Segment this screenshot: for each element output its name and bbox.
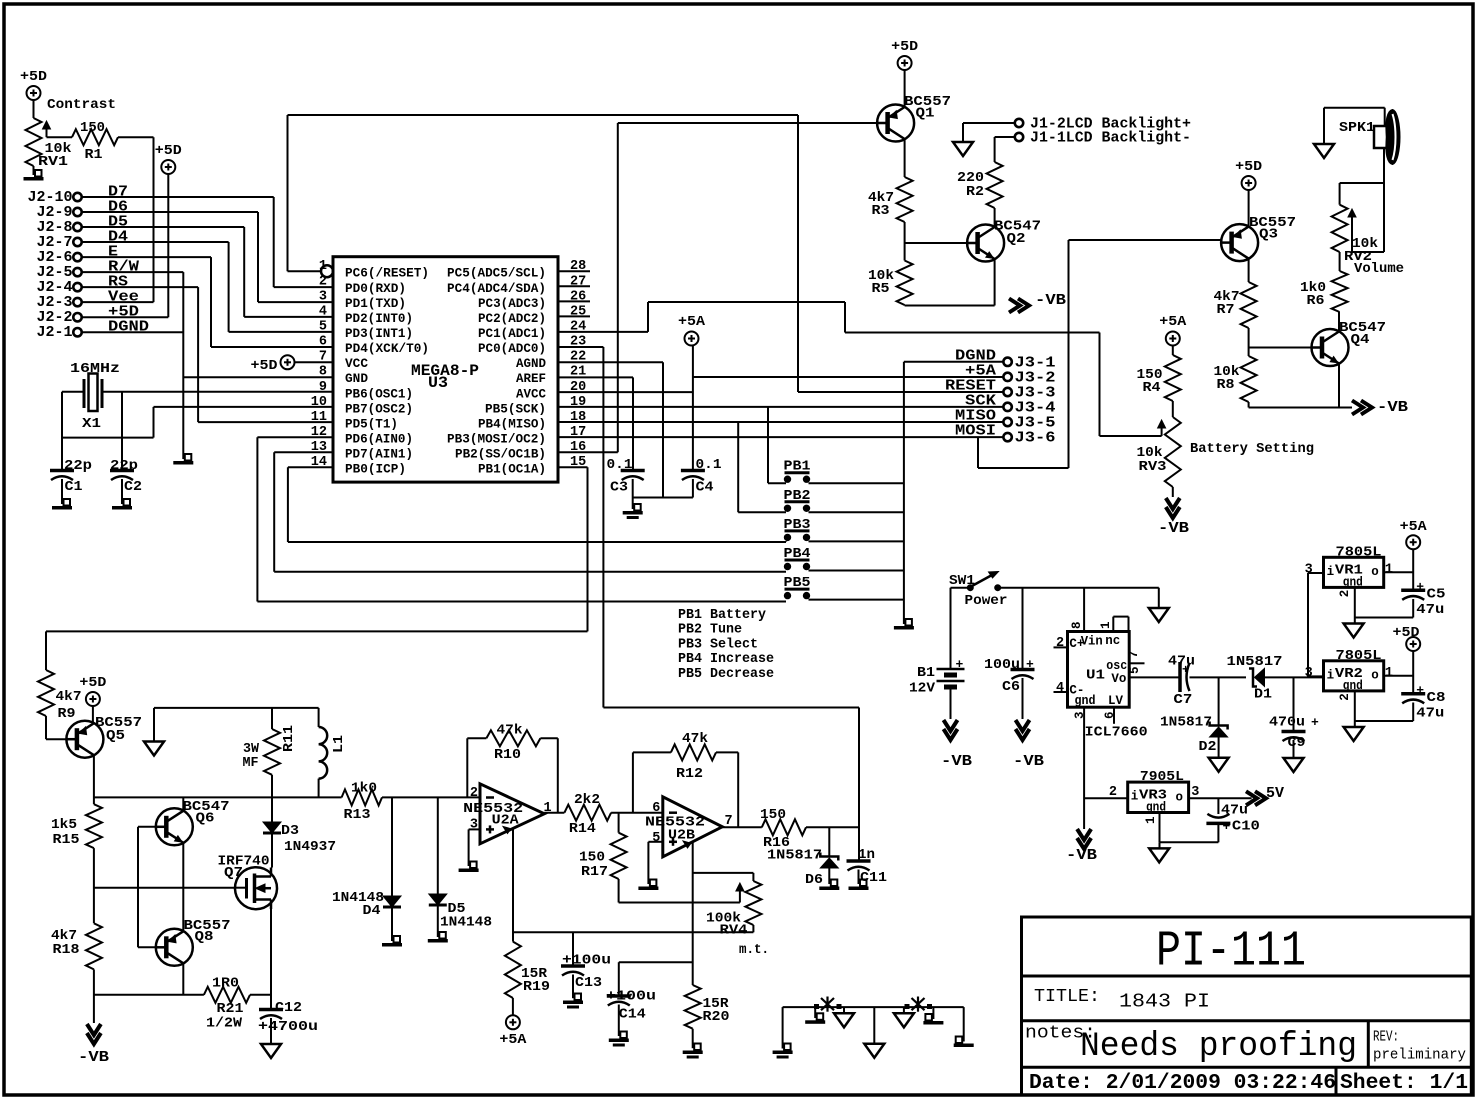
wire xyxy=(61,479,63,504)
svg-text:gnd: gnd xyxy=(1343,679,1363,693)
wire xyxy=(94,994,204,996)
svg-text:1N5817: 1N5817 xyxy=(1160,715,1212,731)
svg-text:-VB: -VB xyxy=(941,753,972,770)
svg-text:4: 4 xyxy=(319,304,327,319)
svg-text:+5D: +5D xyxy=(79,675,106,691)
node J2-9 xyxy=(37,204,82,221)
wire xyxy=(963,1007,965,1041)
svg-text:1N4148: 1N4148 xyxy=(440,915,492,931)
wire xyxy=(1352,251,1384,253)
IC U1 ICL7660 xyxy=(1068,632,1148,741)
wire xyxy=(558,361,663,363)
wire xyxy=(273,452,275,572)
wire xyxy=(648,301,845,303)
power +5D xyxy=(155,143,182,174)
svg-text:5: 5 xyxy=(319,319,327,334)
wire xyxy=(1384,571,1414,573)
pushbutton PB1 xyxy=(784,460,811,483)
svg-text:47k: 47k xyxy=(682,731,708,747)
svg-text:+: + xyxy=(1182,663,1189,677)
pin 1 U1 nc xyxy=(1099,621,1113,629)
svg-text:L1: L1 xyxy=(331,735,347,753)
wire xyxy=(467,737,486,739)
wire xyxy=(274,571,786,573)
wire xyxy=(271,775,273,798)
svg-text:C1: C1 xyxy=(65,479,83,495)
wire xyxy=(82,196,274,198)
potentiometer RV3 10k Battery Setting xyxy=(1137,417,1315,487)
wire xyxy=(1316,572,1324,574)
wire xyxy=(617,123,619,452)
wire xyxy=(1308,675,1316,677)
wire xyxy=(1248,190,1250,226)
svg-text:MOSI: MOSI xyxy=(955,423,996,440)
svg-text:47u: 47u xyxy=(1416,602,1444,618)
ground xyxy=(428,932,448,943)
wire xyxy=(92,706,94,723)
wire xyxy=(235,887,247,889)
wire xyxy=(271,708,273,729)
svg-text:R8: R8 xyxy=(1217,377,1235,393)
wire xyxy=(512,828,514,941)
wire xyxy=(905,305,995,307)
pin 3 PD1(TXD) xyxy=(319,289,406,311)
wire xyxy=(243,227,245,317)
svg-text:PB5 Decrease: PB5 Decrease xyxy=(678,667,774,682)
svg-text:C6: C6 xyxy=(1002,679,1020,695)
svg-text:1: 1 xyxy=(1385,562,1393,577)
wire xyxy=(274,451,333,453)
pin 6 U1 LV xyxy=(1103,711,1117,719)
svg-text:R7: R7 xyxy=(1217,302,1235,318)
svg-text:+: + xyxy=(1026,657,1034,672)
svg-text:PB3: PB3 xyxy=(784,518,811,533)
wire xyxy=(692,346,694,471)
svg-text:PB1 Battery: PB1 Battery xyxy=(678,608,766,623)
svg-text:C4: C4 xyxy=(696,480,714,496)
wire xyxy=(62,391,84,393)
svg-text:i: i xyxy=(1327,565,1335,579)
svg-text:-VB: -VB xyxy=(1377,399,1408,416)
svg-text:R20: R20 xyxy=(703,1009,730,1025)
svg-text:PD2(INT0): PD2(INT0) xyxy=(345,312,413,326)
svg-text:AVCC: AVCC xyxy=(516,387,546,401)
wire xyxy=(182,964,184,995)
svg-text:7905L: 7905L xyxy=(1140,769,1184,785)
svg-text:PC0(ADC0): PC0(ADC0) xyxy=(478,342,546,356)
svg-text:C5: C5 xyxy=(1427,587,1446,603)
wire xyxy=(153,708,155,742)
power +5D xyxy=(79,675,106,706)
svg-text:1: 1 xyxy=(1099,621,1113,629)
wire xyxy=(257,436,333,438)
wire xyxy=(1384,108,1386,126)
wire xyxy=(716,751,738,753)
wire xyxy=(752,925,754,932)
wire xyxy=(558,346,603,348)
svg-text:R18: R18 xyxy=(53,942,80,958)
svg-text:2: 2 xyxy=(1338,693,1352,701)
svg-text:PC3(ADC3): PC3(ADC3) xyxy=(478,297,546,311)
svg-text:0.1: 0.1 xyxy=(696,457,722,473)
wire xyxy=(271,797,273,822)
wire xyxy=(33,100,35,118)
svg-text:1843 PI: 1843 PI xyxy=(1119,991,1210,1013)
svg-text:D1: D1 xyxy=(1254,687,1272,703)
pin 3 U1 xyxy=(1073,711,1087,719)
wire xyxy=(618,962,620,994)
wire xyxy=(618,122,877,124)
wire xyxy=(1113,707,1115,724)
wire xyxy=(153,137,155,302)
svg-text:U2B: U2B xyxy=(668,828,696,844)
wire xyxy=(257,601,786,603)
svg-text:PB2: PB2 xyxy=(784,489,811,504)
resistor R13 1k0 xyxy=(342,781,382,824)
pin 5 U1 Vo xyxy=(1128,666,1142,674)
wire xyxy=(288,270,322,272)
svg-text:150: 150 xyxy=(760,807,786,823)
svg-text:Needs proofing: Needs proofing xyxy=(1080,1028,1357,1066)
svg-text:Q7: Q7 xyxy=(224,865,243,881)
wire xyxy=(814,1007,816,1018)
wire xyxy=(737,752,739,827)
wire xyxy=(1384,675,1414,677)
wire xyxy=(1355,617,1413,619)
IC U3 MEGA8-P ATmega8 xyxy=(333,257,558,482)
wire xyxy=(558,391,693,393)
svg-text:PD4(XCK/T0): PD4(XCK/T0) xyxy=(345,342,429,356)
wire xyxy=(228,242,230,332)
wire xyxy=(611,812,663,814)
pin 23 PC0(ADC0) xyxy=(478,335,586,357)
svg-text:PD1(TXD): PD1(TXD) xyxy=(345,297,406,311)
wire xyxy=(82,301,154,303)
svg-text:preliminary: preliminary xyxy=(1373,1048,1466,1064)
wire xyxy=(1022,678,1024,719)
svg-text:R17: R17 xyxy=(581,864,608,880)
svg-text:-VB: -VB xyxy=(1066,847,1097,864)
wire xyxy=(903,362,905,624)
transistor Q3 BC557 xyxy=(1221,215,1296,261)
wire xyxy=(1128,617,1130,632)
wire xyxy=(843,1007,845,1013)
wire xyxy=(82,286,198,288)
wire xyxy=(1083,588,1085,632)
ground xyxy=(1149,608,1169,622)
wire xyxy=(183,376,333,378)
wire xyxy=(904,70,906,107)
svg-text:7805L: 7805L xyxy=(1336,545,1382,561)
wire xyxy=(182,843,184,931)
node J2-1 xyxy=(37,324,82,341)
svg-text:U3: U3 xyxy=(428,374,448,392)
wire xyxy=(121,479,123,504)
svg-text:R1: R1 xyxy=(85,147,103,163)
svg-text:R12: R12 xyxy=(676,766,703,782)
svg-text:R10: R10 xyxy=(494,747,521,763)
wire xyxy=(932,1007,934,1019)
node J2-2 xyxy=(37,309,82,326)
svg-text:2: 2 xyxy=(1056,636,1064,651)
wire xyxy=(1249,407,1352,409)
wire xyxy=(1054,646,1068,648)
wire xyxy=(558,285,590,287)
pushbutton PB3 xyxy=(784,518,811,541)
wire xyxy=(587,467,589,631)
resistor R17 150 xyxy=(579,833,627,880)
svg-text:Volume: Volume xyxy=(1354,261,1404,277)
wire xyxy=(46,738,66,740)
resistor R10 47k xyxy=(486,723,540,764)
pin 2 PD0(RXD) xyxy=(319,274,406,296)
svg-text:7805L: 7805L xyxy=(1336,648,1382,664)
pin 12 PD6(AIN0) xyxy=(311,425,413,447)
wire xyxy=(828,868,830,884)
transistor Q8 BC557 xyxy=(156,918,231,966)
ground xyxy=(638,880,658,891)
svg-text:R9: R9 xyxy=(58,706,76,722)
svg-text:PC6(/RESET): PC6(/RESET) xyxy=(345,267,429,281)
wire xyxy=(782,1007,784,1048)
wire xyxy=(692,479,694,498)
wire xyxy=(138,946,156,948)
wire xyxy=(82,331,184,333)
svg-text:2: 2 xyxy=(1338,590,1352,598)
svg-text:2k2: 2k2 xyxy=(574,792,600,808)
svg-text:PB6(OSC1): PB6(OSC1) xyxy=(345,387,413,401)
svg-text:+5A: +5A xyxy=(499,1032,527,1048)
power +5D xyxy=(891,39,918,70)
svg-text:C14: C14 xyxy=(619,1007,646,1023)
wire xyxy=(768,482,786,484)
pin 2 U1 xyxy=(1056,636,1064,651)
transistor Q2 BC547 xyxy=(967,219,1041,262)
svg-text:TITLE:: TITLE: xyxy=(1034,987,1100,1007)
svg-text:+: + xyxy=(956,657,964,672)
svg-text:PC5(ADC5/SCL): PC5(ADC5/SCL) xyxy=(447,267,546,281)
svg-text:C2: C2 xyxy=(124,479,142,495)
ground xyxy=(144,742,164,756)
potentiometer RV1 10k xyxy=(26,97,117,170)
svg-text:+: + xyxy=(1223,819,1231,834)
op-amp U2B NE5532 xyxy=(645,797,733,857)
power +5D xyxy=(1393,625,1421,651)
svg-text:+: + xyxy=(1416,683,1424,698)
svg-text:R6: R6 xyxy=(1307,293,1325,309)
wire xyxy=(210,257,212,347)
star point xyxy=(814,997,842,1012)
svg-text:R5: R5 xyxy=(872,281,890,297)
wire xyxy=(858,708,860,861)
wire xyxy=(1001,587,1159,589)
svg-text:PD7(AIN1): PD7(AIN1) xyxy=(345,448,413,462)
svg-text:47k: 47k xyxy=(497,723,523,739)
diode D4 1N4148 xyxy=(332,797,401,919)
wire xyxy=(1217,825,1219,842)
svg-text:MF: MF xyxy=(243,755,259,771)
svg-text:+5D: +5D xyxy=(891,39,918,55)
svg-text:RV3: RV3 xyxy=(1139,459,1167,475)
wire xyxy=(1293,677,1295,731)
wire xyxy=(271,834,273,868)
ground xyxy=(173,454,193,465)
svg-text:U1: U1 xyxy=(1086,668,1105,684)
potentiometer RV4 100k xyxy=(706,881,769,958)
node J3-6 xyxy=(1003,430,1055,447)
pin 26 PC3(ADC3) xyxy=(478,289,586,311)
svg-text:PB3 Select: PB3 Select xyxy=(678,637,758,652)
wire xyxy=(287,467,289,542)
wire xyxy=(783,1006,964,1008)
pin 5 PD3(INT1) xyxy=(319,319,413,341)
pin 8 GND xyxy=(319,365,369,387)
wire xyxy=(809,511,904,513)
svg-text:C10: C10 xyxy=(1232,819,1260,835)
wire xyxy=(806,826,859,828)
diode D6 1N5817 xyxy=(805,827,838,888)
svg-text:R13: R13 xyxy=(344,807,371,823)
wire xyxy=(809,570,904,572)
svg-text:gnd: gnd xyxy=(1075,694,1096,708)
svg-text:+100u: +100u xyxy=(606,989,656,1005)
wire xyxy=(274,286,333,288)
pin 1 PC6(/RESET) xyxy=(319,259,429,281)
resistor R4 150 xyxy=(1137,355,1181,401)
wire xyxy=(256,437,258,601)
wire xyxy=(647,842,649,884)
wire xyxy=(1189,797,1252,799)
wire xyxy=(1218,677,1220,725)
svg-text:22p: 22p xyxy=(110,458,138,474)
svg-text:Sheet: 1/1: Sheet: 1/1 xyxy=(1340,1072,1468,1095)
ground xyxy=(1314,144,1334,158)
wire xyxy=(977,437,979,468)
power +5D xyxy=(20,69,47,100)
svg-text:RV4: RV4 xyxy=(720,923,748,939)
svg-text:+5A: +5A xyxy=(1400,519,1428,535)
crystal X1 16MHz xyxy=(70,361,120,432)
wire xyxy=(693,376,1004,378)
node J2-3 xyxy=(37,294,82,311)
svg-text:PC1(ADC1): PC1(ADC1) xyxy=(478,327,546,341)
wire xyxy=(1248,259,1250,282)
diode D1 1N5817 xyxy=(1227,654,1283,703)
wire xyxy=(1158,588,1160,608)
svg-text:470u: 470u xyxy=(1269,715,1305,731)
wire xyxy=(270,1018,272,1044)
wire xyxy=(1159,842,1161,848)
wire xyxy=(295,361,333,363)
wire xyxy=(1316,675,1324,677)
op-amp U2A NE5532 xyxy=(463,784,551,844)
wire xyxy=(1099,333,1101,437)
wire xyxy=(737,422,739,512)
ground xyxy=(849,880,869,891)
wire xyxy=(1112,617,1114,632)
wire xyxy=(722,826,762,828)
wire xyxy=(45,631,47,670)
svg-text:9: 9 xyxy=(319,380,327,395)
wire xyxy=(1159,813,1161,843)
power +5A xyxy=(499,1015,527,1048)
wire xyxy=(809,482,904,484)
svg-text:B1: B1 xyxy=(917,665,935,681)
svg-text:R2: R2 xyxy=(966,184,984,200)
wire xyxy=(844,302,846,333)
wire xyxy=(1307,573,1309,677)
svg-text:1N4937: 1N4937 xyxy=(284,839,336,855)
wire xyxy=(1383,148,1385,252)
resistor R20 15R xyxy=(685,985,730,1029)
svg-text:J2-1: J2-1 xyxy=(37,324,73,341)
wire xyxy=(93,756,95,805)
wire xyxy=(47,136,73,138)
wire xyxy=(287,115,289,271)
wire xyxy=(244,316,333,318)
ground xyxy=(24,170,44,181)
svg-text:Q1: Q1 xyxy=(916,106,935,122)
ground xyxy=(609,1032,629,1047)
resistor R2 220 xyxy=(957,162,1003,208)
pin 8 U1 xyxy=(1070,621,1084,629)
wire xyxy=(618,879,620,903)
svg-text:22p: 22p xyxy=(64,458,92,474)
wire xyxy=(767,407,769,483)
node J2-10 xyxy=(28,189,82,206)
svg-text:gnd: gnd xyxy=(1343,576,1363,590)
wire xyxy=(466,738,468,797)
svg-text:1n: 1n xyxy=(858,847,875,863)
wire xyxy=(182,272,184,459)
svg-text:PD5(T1): PD5(T1) xyxy=(345,417,398,431)
capacitor C2 22p xyxy=(110,458,142,495)
wire xyxy=(798,391,1003,393)
svg-text:Q8: Q8 xyxy=(195,929,214,945)
svg-text:47u: 47u xyxy=(1221,803,1248,819)
svg-text:8: 8 xyxy=(1070,621,1084,629)
svg-text:-VB: -VB xyxy=(1158,520,1189,537)
wire xyxy=(258,301,333,303)
net arrow -VB xyxy=(1066,829,1097,864)
pin 7 U1 xyxy=(1127,650,1141,658)
wire xyxy=(1354,587,1356,617)
pushbutton PB4 xyxy=(784,547,811,570)
wire xyxy=(693,872,754,874)
svg-text:1k5: 1k5 xyxy=(51,817,77,833)
power +5A xyxy=(678,314,706,346)
svg-text:Vo: Vo xyxy=(1111,672,1126,686)
wire xyxy=(82,256,211,258)
wire xyxy=(82,211,258,213)
wire xyxy=(138,826,156,828)
svg-text:5: 5 xyxy=(652,831,660,846)
capacitor C14 100u xyxy=(606,962,693,1022)
wire xyxy=(1190,676,1247,678)
switch SW1 Power xyxy=(949,572,1008,610)
wire xyxy=(154,406,334,408)
resistor R19 15R xyxy=(505,942,550,998)
svg-text:o: o xyxy=(1176,791,1184,805)
wire xyxy=(618,1005,620,1037)
pin 4 PD2(INT0) xyxy=(319,304,413,326)
wire xyxy=(1323,108,1325,144)
wire xyxy=(558,436,1003,438)
wire xyxy=(250,994,271,996)
svg-text:Q4: Q4 xyxy=(1351,332,1370,348)
svg-text:J3-6: J3-6 xyxy=(1015,430,1056,447)
wire xyxy=(46,630,588,632)
